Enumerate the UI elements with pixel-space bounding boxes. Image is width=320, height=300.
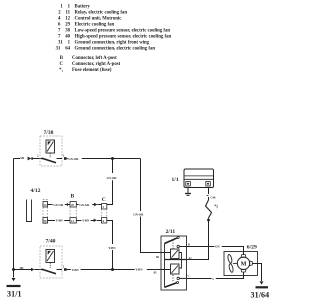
svg-text:B: B bbox=[60, 56, 64, 61]
battery positive feed with connector C4b bbox=[207, 188, 216, 201]
connector in-line on 7/38 feed bbox=[20, 156, 33, 160]
wire 7/40 to relay coil2 with label Y-BN bbox=[67, 268, 161, 272]
svg-text:2 11: 2 11 bbox=[58, 10, 70, 15]
pressure sensor 7/40 bbox=[40, 239, 62, 278]
svg-text:31 64: 31 64 bbox=[56, 46, 71, 51]
svg-text:20: 20 bbox=[71, 203, 74, 207]
svg-text:6: 6 bbox=[103, 219, 105, 223]
svg-text:M: M bbox=[241, 261, 247, 268]
ground terminal arrow 31/1 bbox=[12, 278, 16, 281]
legend note B connector bbox=[60, 56, 117, 61]
svg-text:*): *) bbox=[214, 204, 218, 209]
svg-text:1: 1 bbox=[63, 264, 65, 268]
node below fuse bbox=[207, 219, 210, 222]
legend line 31/1 Ground connection bbox=[58, 40, 150, 45]
svg-text:High-speed pressure sensor, el: High-speed pressure sensor, electric coo… bbox=[75, 34, 172, 39]
wire C bottom drop to 7/40 row bbox=[107, 221, 113, 245]
ground bar 31/64 bbox=[256, 286, 269, 288]
wire into 7/38 left pin bbox=[33, 158, 42, 160]
relay coil1 left pin bbox=[161, 252, 171, 254]
relay coil 1 bbox=[171, 249, 180, 259]
fan blades bbox=[227, 254, 232, 263]
svg-text:GN: GN bbox=[215, 244, 220, 248]
wire fan to ground 31/64 bbox=[252, 264, 261, 282]
node junction 7/40 row bbox=[111, 268, 114, 271]
svg-text:Electric cooling fan: Electric cooling fan bbox=[75, 22, 115, 27]
wire relay 87 to fan with label GN bbox=[187, 244, 244, 254]
svg-text:1 1: 1 1 bbox=[60, 4, 70, 9]
relay coil2 left pin bbox=[161, 269, 171, 271]
pressure sensor 7/38 bbox=[40, 130, 62, 166]
svg-text:Relay, electric cooling fan: Relay, electric cooling fan bbox=[75, 10, 128, 15]
legend line 7/38 Low-speed pressure sensor bbox=[58, 28, 170, 33]
svg-text:4/12: 4/12 bbox=[31, 188, 41, 194]
svg-text:7 40: 7 40 bbox=[58, 34, 71, 39]
relay middle rail pin 30 bbox=[165, 259, 187, 261]
svg-text:C: C bbox=[102, 197, 106, 203]
motor terminals bbox=[241, 255, 246, 258]
wire left rail to 7/40 with label SB bbox=[14, 266, 43, 271]
svg-text:Low-speed pressure sensor, ele: Low-speed pressure sensor, electric cool… bbox=[75, 28, 171, 33]
svg-text:Y-BN: Y-BN bbox=[56, 219, 64, 223]
wire 4/12 pin30 to B bottom with label Y-BN bbox=[48, 219, 71, 223]
control unit 4/12 bbox=[27, 188, 48, 224]
svg-text:4 12: 4 12 bbox=[58, 16, 71, 21]
connector C bbox=[102, 197, 107, 223]
fuse element *1 bbox=[206, 200, 219, 219]
electric cooling fan 6/29 bbox=[224, 245, 258, 276]
svg-text:1: 1 bbox=[62, 69, 64, 73]
connector B bbox=[70, 193, 76, 223]
svg-text:GY-OR: GY-OR bbox=[107, 176, 118, 180]
legend line 31/64 Ground connection bbox=[56, 46, 156, 51]
svg-text:Y-BN: Y-BN bbox=[72, 268, 80, 272]
legend line 7/40 High-speed pressure sensor bbox=[58, 34, 171, 39]
wire relay bottom contact to fan with label x bbox=[187, 272, 244, 281]
svg-text:7/38: 7/38 bbox=[44, 130, 54, 136]
svg-text:1: 1 bbox=[188, 276, 189, 278]
svg-text:31 1: 31 1 bbox=[58, 40, 71, 45]
svg-text:x: x bbox=[212, 277, 214, 281]
motor M bbox=[237, 257, 249, 269]
relay coil 2 bbox=[171, 264, 180, 274]
svg-text:Fuse element (fuse): Fuse element (fuse) bbox=[72, 68, 112, 73]
svg-text:B: B bbox=[71, 193, 75, 199]
svg-text:1/1: 1/1 bbox=[172, 177, 179, 183]
svg-text:Ground connection, right front: Ground connection, right front wing bbox=[75, 40, 150, 45]
svg-text:14: 14 bbox=[44, 203, 47, 207]
svg-text:C: C bbox=[60, 62, 64, 67]
wire GY-OR branch continuation bbox=[107, 180, 113, 204]
svg-text:D: D bbox=[188, 242, 190, 246]
relay top fixed contact bbox=[177, 245, 179, 247]
battery ground stub bbox=[185, 188, 191, 196]
ground terminal arrow 31/64 bbox=[260, 281, 264, 284]
wire battery feed to relay pin 30 bbox=[187, 220, 209, 260]
relay bottom fixed contact bbox=[177, 277, 179, 279]
relay top contact arm bbox=[165, 238, 178, 244]
wire 4/12 pin14 to B with label GY-OR bbox=[48, 203, 71, 207]
wire GY-OR branch down to C connector bbox=[112, 159, 114, 174]
svg-text:Y-BN: Y-BN bbox=[135, 268, 143, 272]
svg-text:7/40: 7/40 bbox=[46, 239, 56, 245]
svg-text:Control unit, Motronic: Control unit, Motronic bbox=[75, 16, 123, 21]
svg-text:GN-GR: GN-GR bbox=[79, 203, 90, 207]
svg-text:30: 30 bbox=[44, 219, 47, 223]
svg-text:6 29: 6 29 bbox=[58, 22, 71, 27]
relay internal common rail bbox=[164, 244, 166, 288]
svg-text:86: 86 bbox=[156, 255, 159, 259]
relay bottom contact arm bbox=[165, 283, 177, 288]
wire drop continuation to junction bbox=[112, 250, 114, 270]
legend note C connector bbox=[60, 62, 121, 67]
connector dot after 7/40 bbox=[64, 268, 67, 271]
svg-text:Ground connection, electric co: Ground connection, electric cooling fan bbox=[75, 46, 156, 51]
svg-text:GY-OR: GY-OR bbox=[53, 203, 64, 207]
wire label GN-OR on 7/38 row bbox=[67, 157, 80, 161]
svg-text:Battery: Battery bbox=[75, 4, 91, 9]
wire 7/38 row to corner bbox=[82, 158, 141, 160]
svg-text:3: 3 bbox=[103, 205, 105, 209]
connector dot after 7/38 bbox=[64, 157, 67, 160]
battery 1/1 bbox=[172, 169, 214, 188]
svg-text:31/1: 31/1 bbox=[7, 290, 22, 299]
wire B to C with label GN-GR bbox=[76, 203, 101, 207]
svg-text:6/29: 6/29 bbox=[247, 245, 257, 251]
legend line 2/11 Relay bbox=[58, 10, 127, 15]
svg-text:Y-BN: Y-BN bbox=[82, 219, 90, 223]
svg-text:Y-BN: Y-BN bbox=[108, 246, 116, 250]
svg-text:1: 1 bbox=[63, 153, 65, 157]
legend line 6/29 Electric cooling fan bbox=[58, 22, 115, 27]
svg-text:Connector, left A-post: Connector, left A-post bbox=[72, 56, 117, 61]
svg-text:SB: SB bbox=[20, 156, 25, 160]
ground bar 31/1 bbox=[7, 285, 21, 287]
legend line 1/1 Battery bbox=[60, 4, 90, 9]
wire GN-OR drop to relay coil1 bbox=[140, 159, 142, 212]
wire GN-OR drop continuation bbox=[141, 217, 162, 253]
wire left rail to ground 31/1 bbox=[13, 159, 15, 278]
relay 2/11 bbox=[161, 229, 187, 290]
svg-text:GN-OR: GN-OR bbox=[133, 212, 144, 216]
svg-text:Connector, right A-post: Connector, right A-post bbox=[72, 62, 121, 67]
svg-text:2/11: 2/11 bbox=[166, 229, 176, 235]
node junction GY-OR branch bbox=[111, 157, 114, 160]
wire 7/38 feed horizontal bbox=[14, 158, 21, 160]
svg-text:GN-OR: GN-OR bbox=[68, 157, 79, 161]
legend note *1 fuse element bbox=[59, 68, 112, 73]
node junction on left rail at 7/40 row bbox=[12, 268, 15, 271]
wire B bottom to C bottom with label Y-BN bbox=[76, 219, 101, 223]
relay mechanical link dashes bbox=[172, 240, 174, 282]
svg-text:2: 2 bbox=[37, 154, 39, 158]
svg-text:7 38: 7 38 bbox=[58, 28, 71, 33]
svg-text:31/64: 31/64 bbox=[251, 291, 270, 300]
legend line 4/12 Control unit bbox=[58, 16, 122, 21]
svg-text:14: 14 bbox=[71, 219, 74, 223]
svg-text:C4b: C4b bbox=[210, 195, 216, 199]
svg-text:85: 85 bbox=[154, 270, 157, 274]
